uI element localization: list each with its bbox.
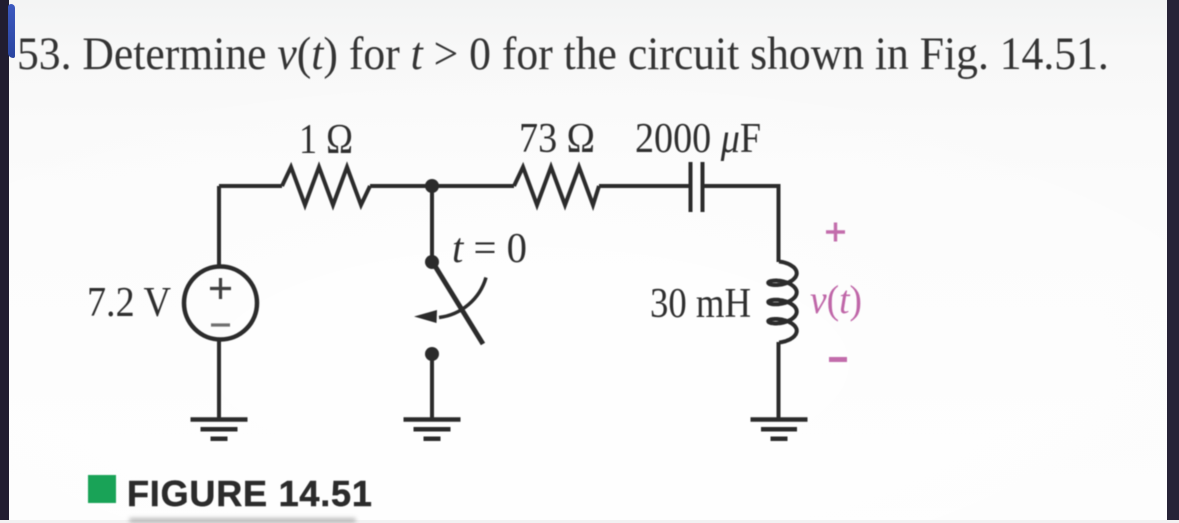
svg-text:7.2 V: 7.2 V — [87, 280, 171, 326]
svg-text:v(t): v(t) — [810, 277, 862, 322]
svg-text:2000 μF: 2000 μF — [635, 116, 761, 162]
svg-text:30 mH: 30 mH — [650, 281, 751, 327]
svg-text:1 Ω: 1 Ω — [299, 117, 353, 163]
svg-text:t = 0: t = 0 — [452, 226, 527, 272]
svg-text:73 Ω: 73 Ω — [519, 116, 595, 162]
